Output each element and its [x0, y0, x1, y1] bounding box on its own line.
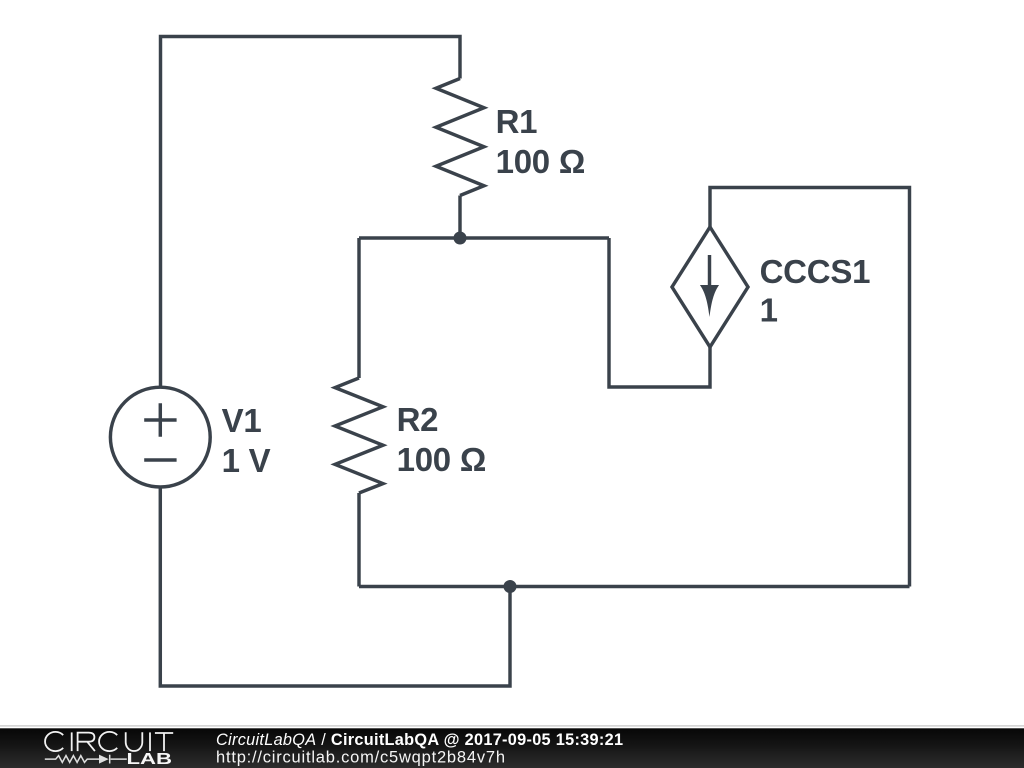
- CCCS1 diamond: [672, 227, 748, 347]
- svg-text:http://circuitlab.com/c5wqpt2b: http://circuitlab.com/c5wqpt2b84v7h: [216, 749, 505, 767]
- CCCS1 arrow head: [700, 285, 719, 317]
- logo letter T: [155, 733, 173, 751]
- svg-text:100 Ω: 100 Ω: [397, 441, 486, 478]
- resistor R2: [335, 378, 383, 493]
- V1 minus sign: [144, 458, 176, 461]
- svg-text:1 V: 1 V: [222, 442, 271, 479]
- logo letter U: [126, 732, 143, 751]
- node B dot: [504, 580, 517, 593]
- resistor R1: [436, 79, 484, 196]
- svg-text:LAB: LAB: [127, 751, 173, 768]
- svg-text:CCCS1: CCCS1: [760, 253, 871, 290]
- node A dot: [454, 232, 467, 245]
- logo letter I: [149, 732, 151, 751]
- svg-text:100 Ω: 100 Ω: [496, 143, 585, 180]
- logo letter R: [78, 733, 95, 752]
- svg-text:R1: R1: [496, 103, 538, 140]
- voltage source V1 circle: [110, 387, 210, 487]
- logo letter C: [45, 732, 63, 751]
- logo letter I: [71, 732, 73, 751]
- wire R1 bottom to node A: [458, 196, 461, 239]
- wire node B down and left to V1 bottom: [160, 487, 510, 686]
- V1 plus sign: [144, 403, 176, 437]
- svg-text:R2: R2: [397, 401, 439, 438]
- wire bottom row: [359, 585, 910, 588]
- svg-text:V1: V1: [222, 402, 262, 439]
- CCCS1 arrow shaft: [708, 255, 711, 292]
- wire CCCS top to right side down: [710, 188, 910, 587]
- CircuitLab logo CIRCUIT (drawn letters): [45, 732, 173, 751]
- CircuitLab logo resistor-diode glyph: [45, 755, 127, 764]
- wire node row: [359, 236, 609, 239]
- wire node row corner down to CCCS bottom lead: [609, 238, 710, 387]
- logo letter C: [99, 732, 117, 751]
- svg-text:CircuitLabQA / CircuitLabQA @: CircuitLabQA / CircuitLabQA @ 2017-09-05…: [216, 731, 623, 749]
- footer separator line: [0, 725, 1024, 726]
- svg-text:1: 1: [760, 292, 778, 329]
- wire R2 bottom lead: [357, 493, 360, 587]
- wire R2 top lead: [357, 238, 360, 378]
- wire V1 top to R1 top: [161, 37, 461, 388]
